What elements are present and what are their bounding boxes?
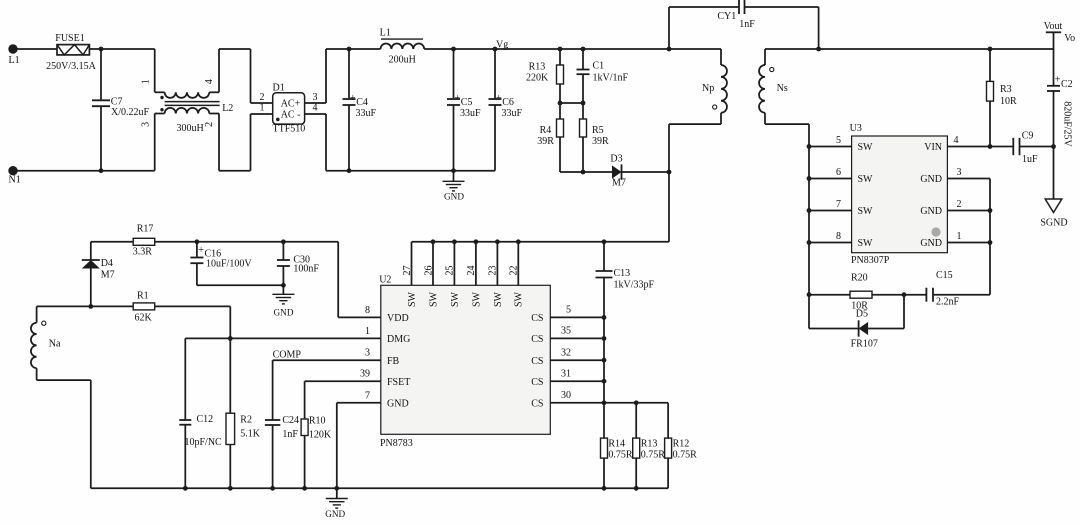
svg-text:120K: 120K — [309, 430, 332, 441]
svg-text:DMG: DMG — [387, 334, 410, 345]
svg-text:CY1: CY1 — [717, 11, 736, 22]
svg-text:D4: D4 — [101, 258, 113, 269]
svg-text:D3: D3 — [610, 154, 622, 165]
svg-text:SW: SW — [858, 206, 874, 217]
svg-text:25: 25 — [445, 266, 456, 276]
svg-text:R1: R1 — [137, 291, 149, 302]
svg-text:1: 1 — [260, 103, 265, 114]
svg-text:250V/3.15A: 250V/3.15A — [46, 61, 97, 72]
svg-text:+: + — [496, 93, 502, 104]
svg-text:30: 30 — [561, 390, 571, 401]
svg-text:3: 3 — [957, 167, 962, 178]
svg-text:FSET: FSET — [387, 377, 410, 388]
svg-text:CS: CS — [531, 398, 543, 409]
svg-text:35: 35 — [561, 326, 571, 337]
svg-text:C12: C12 — [197, 414, 214, 425]
svg-text:33uF: 33uF — [356, 108, 377, 119]
svg-text:SW: SW — [858, 174, 874, 185]
svg-text:AC -: AC - — [281, 110, 301, 121]
svg-text:Na: Na — [49, 339, 61, 350]
svg-text:R17: R17 — [137, 224, 154, 235]
svg-text:CS: CS — [531, 356, 543, 367]
svg-text:26: 26 — [423, 266, 434, 276]
svg-text:2.2nF: 2.2nF — [936, 297, 960, 308]
svg-text:CS: CS — [531, 334, 543, 345]
svg-text:31: 31 — [561, 368, 571, 379]
svg-text:820uF/25V: 820uF/25V — [1062, 101, 1073, 147]
svg-text:10R: 10R — [1000, 96, 1017, 107]
svg-text:R2: R2 — [240, 415, 252, 426]
svg-text:3: 3 — [141, 122, 152, 127]
svg-text:27: 27 — [402, 266, 413, 276]
svg-text:C13: C13 — [614, 268, 631, 279]
svg-text:1uF: 1uF — [1022, 154, 1038, 165]
svg-text:62K: 62K — [135, 313, 153, 324]
svg-text:FB: FB — [387, 356, 400, 367]
svg-text:C4: C4 — [356, 97, 368, 108]
svg-text:R20: R20 — [851, 273, 868, 284]
svg-text:33uF: 33uF — [460, 108, 481, 119]
svg-text:Vout: Vout — [1044, 21, 1063, 32]
svg-text:5: 5 — [566, 305, 571, 316]
svg-text:GND: GND — [274, 308, 294, 318]
svg-text:+: + — [1055, 75, 1061, 86]
svg-text:2: 2 — [204, 122, 215, 127]
svg-text:3: 3 — [313, 92, 318, 103]
svg-text:CS: CS — [531, 313, 543, 324]
svg-text:C7: C7 — [111, 97, 123, 108]
svg-text:+: + — [350, 93, 356, 104]
svg-text:SW: SW — [407, 291, 418, 307]
svg-text:U2: U2 — [379, 275, 391, 286]
svg-text:23: 23 — [488, 266, 499, 276]
svg-text:SW: SW — [493, 291, 504, 307]
svg-text:FUSE1: FUSE1 — [55, 33, 84, 44]
svg-text:24: 24 — [466, 266, 477, 276]
svg-text:Vg: Vg — [496, 40, 508, 51]
svg-text:PN8307P: PN8307P — [851, 255, 890, 266]
svg-text:U3: U3 — [850, 123, 862, 134]
svg-text:1: 1 — [365, 326, 370, 337]
svg-text:7: 7 — [365, 390, 370, 401]
svg-text:Vo: Vo — [1064, 33, 1075, 44]
svg-text:1kV/33pF: 1kV/33pF — [614, 280, 655, 291]
svg-text:AC+: AC+ — [281, 99, 301, 110]
svg-text:X/0.22uF: X/0.22uF — [111, 107, 150, 118]
svg-text:1kV/1nF: 1kV/1nF — [593, 73, 629, 84]
svg-text:N1: N1 — [9, 175, 21, 186]
svg-text:SW: SW — [428, 291, 439, 307]
svg-text:R4: R4 — [540, 125, 552, 136]
svg-text:22: 22 — [509, 266, 520, 276]
svg-text:6: 6 — [836, 167, 841, 178]
svg-text:L1: L1 — [9, 55, 20, 66]
svg-text:4: 4 — [954, 135, 959, 146]
svg-text:1: 1 — [141, 79, 152, 84]
svg-text:C6: C6 — [502, 97, 514, 108]
svg-text:M7: M7 — [612, 178, 626, 189]
svg-text:TTF510: TTF510 — [273, 124, 306, 135]
svg-text:GND: GND — [920, 206, 942, 217]
svg-text:SGND: SGND — [1040, 218, 1067, 229]
svg-text:0.75R: 0.75R — [608, 450, 633, 461]
svg-text:2: 2 — [260, 92, 265, 103]
svg-text:300uH: 300uH — [177, 123, 204, 134]
svg-text:R10: R10 — [309, 416, 326, 427]
svg-text:PN8783: PN8783 — [380, 438, 413, 449]
svg-text:C9: C9 — [1022, 131, 1034, 142]
svg-text:+: + — [198, 245, 204, 256]
svg-text:VDD: VDD — [387, 313, 409, 324]
svg-text:SW: SW — [858, 238, 874, 249]
svg-text:R3: R3 — [1000, 84, 1012, 95]
svg-text:M7: M7 — [101, 270, 115, 281]
svg-text:C24: C24 — [282, 415, 299, 426]
svg-text:39R: 39R — [592, 136, 609, 147]
svg-text:220K: 220K — [526, 73, 549, 84]
svg-text:SW: SW — [471, 291, 482, 307]
svg-text:C5: C5 — [461, 97, 473, 108]
svg-text:0.75R: 0.75R — [673, 450, 698, 461]
svg-text:VIN: VIN — [924, 142, 942, 153]
svg-text:4: 4 — [204, 79, 215, 84]
svg-text:D5: D5 — [856, 309, 868, 320]
svg-text:10pF/NC: 10pF/NC — [185, 437, 223, 448]
svg-text:FR107: FR107 — [851, 339, 878, 350]
svg-text:100nF: 100nF — [293, 264, 319, 275]
svg-text:R14: R14 — [608, 439, 625, 450]
svg-text:COMP: COMP — [273, 350, 302, 361]
svg-text:7: 7 — [836, 199, 841, 210]
svg-text:0.75R: 0.75R — [641, 450, 666, 461]
svg-text:33uF: 33uF — [502, 108, 523, 119]
svg-text:8: 8 — [836, 231, 841, 242]
svg-text:32: 32 — [561, 347, 571, 358]
svg-text:+: + — [455, 93, 461, 104]
svg-text:10uF/100V: 10uF/100V — [206, 259, 252, 270]
svg-text:R13: R13 — [529, 62, 546, 73]
svg-text:L1: L1 — [380, 28, 391, 39]
svg-text:GND: GND — [920, 238, 942, 249]
svg-text:SW: SW — [450, 291, 461, 307]
svg-text:C2: C2 — [1061, 79, 1073, 90]
svg-text:1nF: 1nF — [739, 19, 755, 30]
svg-text:4: 4 — [313, 103, 318, 114]
svg-text:C1: C1 — [593, 61, 605, 72]
svg-text:SW: SW — [858, 142, 874, 153]
svg-text:GND: GND — [444, 192, 464, 202]
svg-text:200uH: 200uH — [389, 55, 416, 66]
svg-text:1: 1 — [957, 231, 962, 242]
svg-text:D1: D1 — [273, 83, 285, 94]
svg-text:39R: 39R — [537, 136, 554, 147]
svg-text:R13: R13 — [641, 439, 658, 450]
svg-text:1nF: 1nF — [282, 429, 298, 440]
svg-text:R5: R5 — [592, 125, 604, 136]
svg-text:SW: SW — [514, 291, 525, 307]
svg-text:GND: GND — [387, 398, 409, 409]
svg-text:Ns: Ns — [777, 83, 788, 94]
svg-text:39: 39 — [360, 369, 370, 380]
svg-text:L2: L2 — [222, 103, 233, 114]
svg-text:8: 8 — [365, 305, 370, 316]
svg-text:Np: Np — [702, 83, 714, 94]
svg-text:3: 3 — [365, 348, 370, 359]
svg-text:CS: CS — [531, 377, 543, 388]
svg-text:5.1K: 5.1K — [240, 429, 260, 440]
svg-text:3.3R: 3.3R — [133, 247, 153, 258]
svg-text:C15: C15 — [936, 270, 953, 281]
svg-text:GND: GND — [325, 509, 345, 519]
svg-text:2: 2 — [957, 199, 962, 210]
svg-text:GND: GND — [920, 174, 942, 185]
svg-text:5: 5 — [836, 135, 841, 146]
svg-text:R12: R12 — [673, 439, 690, 450]
